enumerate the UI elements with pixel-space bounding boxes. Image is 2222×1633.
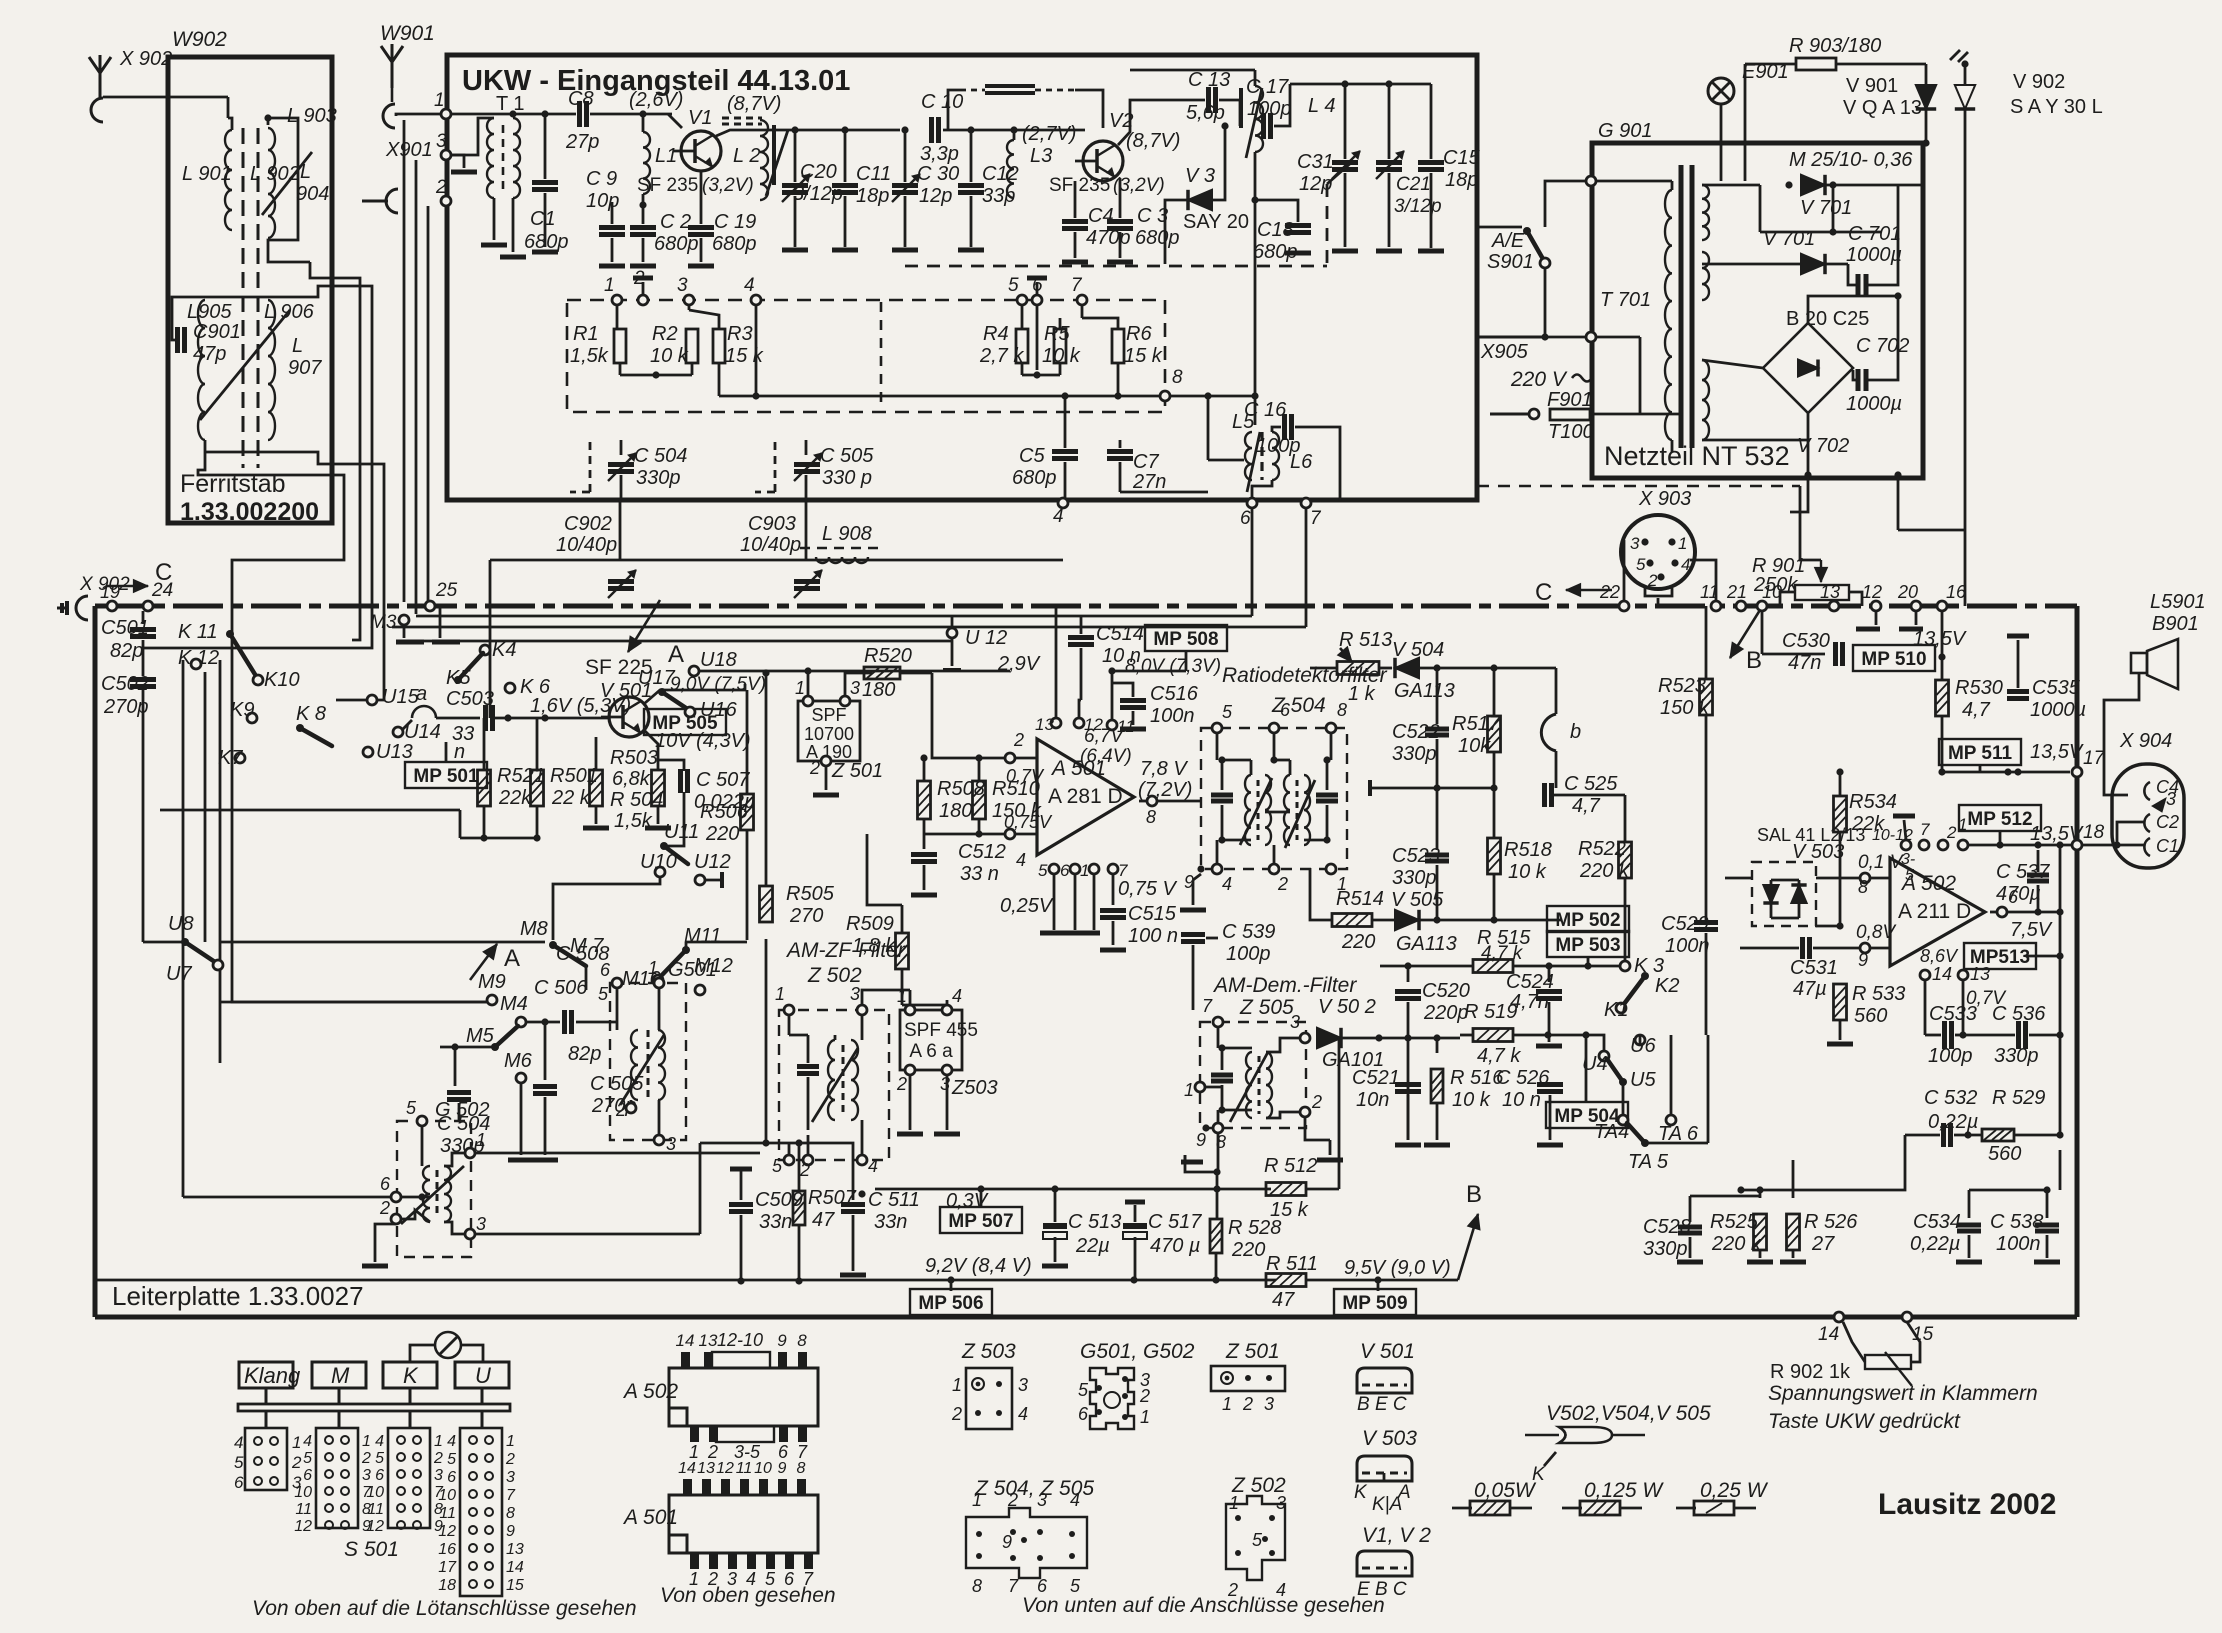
svg-text:R517: R517 [1452, 713, 1501, 735]
svg-text:8: 8 [797, 1331, 807, 1350]
svg-text:K 11: K 11 [178, 621, 218, 643]
A502 bottom pins [690, 1426, 699, 1442]
resistor R526 27 [1792, 1160, 1795, 1198]
svg-text:MP 501: MP 501 [413, 766, 479, 787]
capacitor C1 680p [611, 202, 614, 224]
svg-text:3: 3 [2166, 789, 2176, 809]
svg-text:1: 1 [1184, 1080, 1194, 1100]
svg-text:M3: M3 [370, 612, 397, 633]
svg-text:C524: C524 [1506, 971, 1554, 993]
svg-text:X 902: X 902 [79, 574, 130, 595]
svg-text:9: 9 [1858, 950, 1868, 970]
svg-text:3: 3 [850, 678, 860, 698]
Z504 left capacitor [1221, 760, 1224, 790]
wire M6 down [520, 1083, 523, 1155]
svg-text:100n: 100n [1996, 1233, 2041, 1255]
svg-text:MP 508: MP 508 [1153, 629, 1218, 650]
svg-text:S A Y 30 L: S A Y 30 L [2010, 96, 2103, 118]
rail bar below C20 [782, 248, 808, 253]
svg-text:11: 11 [1700, 582, 1719, 602]
terminal 4 bottom border [1058, 498, 1068, 508]
svg-text:4: 4 [1070, 1490, 1080, 1510]
svg-text:K5: K5 [446, 667, 471, 689]
svg-text:27n: 27n [1132, 471, 1166, 493]
svg-text:10 k: 10 k [650, 345, 689, 367]
coil L4 [1255, 86, 1263, 152]
pin 12 [1871, 601, 1881, 611]
svg-text:C 513: C 513 [1068, 1211, 1121, 1233]
capacitor C502 270p [130, 677, 156, 682]
pin 22 [1619, 601, 1629, 611]
coil L905 [198, 300, 205, 440]
Z504 pin 8 [1326, 723, 1336, 733]
svg-text:7: 7 [1920, 820, 1930, 839]
svg-text:3: 3 [1018, 1375, 1028, 1395]
T701 secondary bottom [1702, 360, 1709, 440]
trim arrow L905/L907 [200, 310, 290, 420]
resistor R533 560 [1834, 984, 1847, 1020]
switch K5/K4/K6 [480, 645, 490, 655]
wire R521/R501 bottom rail [460, 837, 537, 840]
svg-text:18: 18 [2083, 822, 2105, 843]
wire top rail across [1130, 69, 1255, 72]
svg-text:Leiterplatte 1.33.0027: Leiterplatte 1.33.0027 [112, 1281, 364, 1311]
svg-text:3: 3 [1630, 534, 1640, 553]
svg-text:SF 235: SF 235 [637, 175, 698, 196]
svg-text:R520: R520 [864, 645, 912, 667]
trimmer C902 10/40p [619, 500, 622, 560]
resistor R514 220 [1332, 914, 1372, 927]
Z502 dashed filter box [779, 1010, 889, 1160]
capacitor C506 82p [526, 1021, 560, 1024]
svg-text:150 k: 150 k [1660, 697, 1710, 719]
measuring point MP 507 [977, 1185, 984, 1192]
A501 pin2 terminal [1005, 753, 1015, 763]
G501 pin 1 [654, 978, 664, 988]
svg-text:8,0V (7,3V): 8,0V (7,3V) [1125, 656, 1221, 677]
svg-text:17: 17 [2083, 748, 2106, 769]
svg-text:5: 5 [772, 1156, 783, 1176]
svg-text:C 19: C 19 [714, 211, 756, 233]
capacitor C13 5,6p [1206, 87, 1211, 113]
svg-text:C 532: C 532 [1924, 1087, 1977, 1109]
inductor L908 [816, 557, 868, 563]
svg-text:470µ: 470µ [1996, 883, 2041, 905]
Z505 pin 2 [1300, 1107, 1310, 1117]
svg-text:C8: C8 [568, 88, 594, 110]
terminal K12 [191, 659, 201, 669]
svg-text:R 902 1k: R 902 1k [1770, 1361, 1851, 1383]
svg-text:10V (4,3V): 10V (4,3V) [655, 730, 751, 752]
svg-text:M9: M9 [478, 971, 506, 993]
resistor R1 1,5k [616, 305, 619, 329]
resistor R523 150k [1705, 606, 1708, 679]
capacitor C15 18p [1430, 84, 1433, 159]
svg-text:R523: R523 [1658, 675, 1706, 697]
wire V502 out [1359, 1035, 1361, 1038]
svg-text:3: 3 [506, 1469, 515, 1486]
terminal 8 on dashed box [1160, 391, 1170, 401]
svg-text:C 2: C 2 [660, 211, 691, 233]
G502 pin 2 [391, 1214, 401, 1224]
svg-text:U8: U8 [168, 913, 194, 935]
svg-text:5: 5 [447, 1451, 456, 1468]
Z502 pin 4 bottom [857, 1155, 867, 1165]
variable capacitor C504 330p [620, 440, 623, 455]
svg-text:10p: 10p [586, 190, 619, 212]
svg-text:Spannungswert in Klammern: Spannungswert in Klammern [1768, 1382, 2038, 1405]
switch bank lamp [435, 1332, 461, 1358]
resistor R521 22k [483, 718, 486, 769]
svg-text:18: 18 [438, 1577, 456, 1594]
svg-text:R 504: R 504 [610, 789, 663, 811]
resistor R518 10k [1493, 788, 1496, 838]
svg-text:270: 270 [789, 905, 823, 927]
svg-text:C 511: C 511 [868, 1189, 920, 1211]
pin 25 [425, 601, 435, 611]
wire W901 down [391, 88, 394, 102]
svg-text:SPF: SPF [811, 705, 846, 725]
svg-text:11: 11 [295, 1501, 312, 1518]
svg-text:2: 2 [809, 758, 820, 778]
Leiterplatte board outline [95, 604, 2077, 609]
wire C534/C538 top rail [1905, 1189, 1969, 1191]
wire L5 top [1208, 459, 1244, 462]
coil b (half loop) [1541, 714, 1556, 751]
wire C10 to V2 [943, 129, 1085, 132]
capacitor C503 33n [483, 705, 488, 731]
svg-text:C903: C903 [748, 513, 796, 535]
capacitor C529 100n [1694, 920, 1718, 925]
svg-text:M5: M5 [466, 1025, 495, 1047]
svg-text:X901: X901 [385, 139, 433, 161]
terminal X901 pin 1 [441, 109, 451, 119]
svg-text:8: 8 [506, 1505, 515, 1522]
pin 21 [1736, 601, 1746, 611]
svg-text:1: 1 [1229, 1493, 1239, 1513]
wire Z505 pin2 down [1305, 1117, 1330, 1140]
svg-text:Z 501: Z 501 [831, 760, 883, 782]
wire 13,5V rail to pin17 [1942, 771, 2070, 774]
measuring point MP 509 [1377, 1280, 1380, 1291]
svg-text:C 701: C 701 [1848, 223, 1901, 245]
svg-text:1: 1 [795, 678, 805, 698]
filter G501 dashed box [610, 983, 686, 1140]
svg-text:14: 14 [1932, 964, 1952, 984]
svg-text:U12: U12 [694, 851, 731, 873]
capacitor C509 33n [730, 1167, 752, 1172]
bias dashed box divider [880, 302, 883, 410]
svg-text:M6: M6 [504, 1050, 533, 1072]
wire S901 to G901 terminal [1545, 181, 1586, 227]
svg-text:A: A [668, 641, 684, 668]
Z505 wiring [1217, 1027, 1220, 1048]
measuring point MP 503 [1547, 931, 1629, 957]
wire G502 pin3 riser [699, 1143, 702, 1234]
svg-text:U13: U13 [376, 741, 413, 763]
svg-text:5: 5 [1636, 555, 1646, 574]
svg-text:K: K [1354, 1482, 1368, 1503]
svg-text:2: 2 [799, 1160, 810, 1180]
svg-text:M11: M11 [684, 925, 721, 947]
wire output network down to pins 14/15 [2059, 1135, 2061, 1150]
svg-text:B E C: B E C [1357, 1394, 1407, 1415]
svg-text:27: 27 [1811, 1233, 1835, 1255]
V503 dashed box [1752, 862, 1816, 926]
svg-text:X905: X905 [1480, 341, 1529, 363]
svg-text:TA4: TA4 [1594, 1121, 1629, 1143]
svg-text:6: 6 [1037, 1576, 1048, 1596]
junction ferrite top [264, 114, 271, 121]
wire C901 loop [186, 339, 205, 341]
wire pin4 down [755, 305, 758, 396]
svg-text:(8,7V): (8,7V) [727, 93, 781, 115]
svg-text:Z 501: Z 501 [1225, 1340, 1280, 1363]
T1 core [502, 125, 505, 190]
svg-text:220 k: 220 k [1711, 1233, 1762, 1255]
capacitor C4 470p [1078, 161, 1085, 175]
Z504 internal wires [1216, 733, 1219, 760]
svg-text:12: 12 [438, 1523, 456, 1540]
pins 14 15 bottom [1834, 1312, 1844, 1322]
svg-text:C520: C520 [1422, 980, 1470, 1002]
wire U8 lever line [220, 941, 545, 944]
button Klang [239, 1362, 293, 1388]
wire V1 collector to top rail [716, 130, 900, 136]
resistor R2 10k [688, 305, 691, 310]
capacitor C534 0,22µ [1968, 1190, 1971, 1218]
svg-text:C534: C534 [1913, 1211, 1961, 1233]
op-amp A501 A281D triangle [1037, 739, 1134, 855]
svg-text:0,125 W: 0,125 W [1584, 1479, 1664, 1502]
svg-text:K 8: K 8 [296, 703, 326, 725]
trimmer C20 3/12p [794, 130, 797, 182]
svg-text:G501: G501 [668, 959, 717, 981]
svg-text:4: 4 [447, 1433, 456, 1450]
wire V504/V505 node down to R515 [1379, 920, 1381, 1038]
Z505 capacitor [1221, 1048, 1224, 1070]
svg-text:3,3p: 3,3p [920, 143, 959, 165]
svg-text:0,75 V: 0,75 V [1118, 878, 1177, 900]
svg-text:4,7: 4,7 [1962, 699, 1991, 721]
button K [383, 1362, 437, 1388]
svg-text:3: 3 [362, 1467, 371, 1484]
AGC wire from left bundle [160, 809, 460, 812]
pin 10 [1757, 601, 1767, 611]
svg-text:C901: C901 [193, 321, 241, 343]
svg-text:12p: 12p [919, 185, 952, 207]
svg-text:U4: U4 [1582, 1053, 1608, 1075]
svg-text:C514: C514 [1096, 623, 1144, 645]
wire R520 node down [1009, 671, 1011, 716]
svg-text:12: 12 [366, 1518, 384, 1535]
svg-text:L3: L3 [1030, 145, 1052, 167]
svg-text:AM-ZF-Filter: AM-ZF-Filter [785, 939, 906, 962]
svg-text:0,7V: 0,7V [1006, 766, 1045, 786]
main lower rail 9,2V [95, 1279, 1276, 1282]
measuring point MP 511 [1939, 739, 2021, 765]
svg-text:C 526: C 526 [1496, 1067, 1550, 1089]
G501 wiring [616, 988, 619, 1030]
svg-text:13,5V: 13,5V [1913, 628, 1967, 650]
svg-text:330p: 330p [1392, 867, 1437, 889]
wire V902 bottom down the right side [1964, 254, 1967, 530]
svg-text:C 517: C 517 [1148, 1211, 1202, 1233]
svg-text:3: 3 [1276, 1493, 1286, 1513]
G502 pin 1 [465, 1148, 475, 1158]
svg-text:Z 503: Z 503 [961, 1340, 1016, 1363]
svg-text:13: 13 [1970, 964, 1990, 984]
wire U6 up [1639, 1035, 1642, 1045]
capacitor C18 680p [1255, 200, 1298, 222]
svg-text:C5: C5 [1019, 445, 1045, 467]
wire R508/R510 bottom to pin4 [924, 833, 1008, 836]
svg-text:5: 5 [1070, 1576, 1081, 1596]
wire fuse to T701 bottom [1672, 414, 1680, 448]
svg-text:6: 6 [375, 1467, 384, 1484]
G502 dashed box [397, 1121, 471, 1257]
svg-text:3: 3 [434, 1467, 443, 1484]
measuring point MP 504 [1546, 1102, 1628, 1128]
svg-text:R 526: R 526 [1804, 1211, 1858, 1233]
svg-text:2: 2 [1647, 571, 1658, 590]
svg-text:82p: 82p [110, 640, 143, 662]
svg-text:5: 5 [1008, 275, 1019, 296]
capacitor C7 27n [1119, 440, 1122, 448]
capacitor C2 680p [642, 205, 645, 224]
resistor R528 220 [1210, 1219, 1222, 1253]
wire R903 left down [1744, 64, 1747, 181]
svg-text:47p: 47p [193, 343, 226, 365]
A501 output pin 8 [1147, 796, 1157, 806]
svg-text:W901: W901 [380, 22, 435, 45]
terminal 7 [1077, 295, 1087, 305]
arrow A mid [628, 600, 660, 652]
svg-text:0,25 W: 0,25 W [1700, 1479, 1769, 1502]
stems buttons to rail [265, 1388, 268, 1404]
capacitor C525 4,7 [1494, 787, 1540, 789]
svg-text:R518: R518 [1504, 839, 1552, 861]
svg-text:X 902: X 902 [119, 48, 172, 70]
svg-text:2: 2 [433, 1450, 443, 1467]
svg-text:4: 4 [952, 986, 962, 1006]
G502 pin 6 [391, 1192, 401, 1202]
wire right edge down [1897, 380, 1899, 475]
measuring point MP 506 [950, 1280, 953, 1291]
svg-text:6: 6 [1060, 861, 1070, 880]
terminal X901 pin 3 [441, 150, 451, 160]
wire R526 top [1741, 1160, 1793, 1190]
wire 0,3V rail [875, 1188, 1271, 1191]
svg-text:100p: 100p [1928, 1045, 1973, 1067]
svg-text:L 4: L 4 [1308, 95, 1335, 117]
svg-text:2,9V: 2,9V [997, 653, 1041, 675]
capacitor C17 100p (series) [1261, 113, 1266, 139]
svg-text:Netzteil NT 532: Netzteil NT 532 [1604, 441, 1790, 471]
svg-text:M4: M4 [500, 993, 528, 1015]
svg-text:V 901: V 901 [1846, 75, 1898, 97]
svg-text:12-10: 12-10 [717, 1330, 763, 1350]
lamp E901 [1708, 78, 1734, 104]
measuring point MP513 [1964, 943, 2036, 969]
wire T1 sec bottom [512, 198, 515, 252]
svg-text:5: 5 [1222, 702, 1233, 722]
T701 secondary top [1702, 185, 1709, 240]
wire K1 down [1645, 975, 1660, 977]
svg-text:100p: 100p [1247, 98, 1292, 120]
terminal X905 [1477, 336, 1545, 339]
A502 bottom pins 14 13 [1920, 970, 1930, 980]
svg-text:2: 2 [1311, 1092, 1322, 1112]
G501 pin 6 [612, 978, 622, 988]
wire plug to X901 pin1 [396, 114, 440, 116]
svg-text:33 n: 33 n [960, 863, 999, 885]
op-amp A502 A211D [1890, 858, 1985, 966]
Z502 pin 1 [784, 1005, 794, 1015]
resistor R5 10k [1036, 305, 1039, 370]
arrow B right [1730, 610, 1760, 658]
svg-text:13: 13 [1035, 715, 1054, 734]
svg-text:V 3: V 3 [1185, 165, 1215, 187]
svg-text:U7: U7 [166, 963, 192, 985]
Netzteil NT 532 box [1592, 143, 1923, 478]
capacitor C19 680p [700, 171, 703, 224]
svg-text:R 533: R 533 [1852, 983, 1905, 1005]
plug W901 [383, 104, 395, 128]
wire U18 node to right rail [699, 670, 1010, 673]
svg-text:2: 2 [379, 1198, 390, 1218]
T701 primary winding [1665, 190, 1672, 440]
svg-text:1: 1 [1678, 534, 1687, 553]
svg-text:V1, V 2: V1, V 2 [1362, 1524, 1431, 1547]
svg-text:15 k: 15 k [725, 345, 764, 367]
svg-text:3: 3 [476, 1214, 486, 1234]
resistor R508 180 [923, 758, 925, 782]
svg-text:100n: 100n [1665, 935, 1710, 957]
wire bridge top [1808, 296, 1898, 323]
resistor R507 47 [798, 1143, 801, 1192]
svg-text:B 20 C25: B 20 C25 [1786, 308, 1869, 330]
svg-text:5: 5 [234, 1453, 244, 1472]
svg-text:2: 2 [1277, 874, 1288, 894]
button M [312, 1362, 366, 1388]
svg-text:C522: C522 [1392, 721, 1440, 743]
ground pin6 [1036, 282, 1039, 295]
svg-text:4,7 k: 4,7 k [1477, 1045, 1521, 1067]
svg-text:330p: 330p [1392, 743, 1437, 765]
svg-text:T 701: T 701 [1600, 289, 1651, 311]
svg-text:C1: C1 [2156, 836, 2179, 856]
svg-text:10: 10 [294, 1484, 312, 1501]
resistor R504 1,5k [657, 760, 660, 769]
svg-text:17: 17 [438, 1559, 457, 1576]
capacitor C10 3,3p (series) [929, 117, 934, 143]
svg-text:C512: C512 [958, 841, 1006, 863]
capacitor C530 47n [1761, 611, 1764, 654]
svg-text:L 908: L 908 [822, 523, 872, 545]
svg-text:M8: M8 [520, 918, 548, 940]
svg-text:4: 4 [375, 1433, 384, 1450]
wire net to pin14 [1741, 1196, 1839, 1312]
V503 diodes [1763, 885, 1778, 903]
wire L905 top rail [205, 296, 300, 299]
svg-text:33n: 33n [874, 1211, 907, 1233]
svg-text:1.33.002200: 1.33.002200 [180, 498, 319, 526]
svg-text:C 10: C 10 [921, 91, 963, 113]
svg-text:C2: C2 [2156, 812, 2179, 832]
quartz filter SPF455 A6a box [900, 1010, 962, 1070]
resistor R522 220k [1554, 794, 1625, 797]
